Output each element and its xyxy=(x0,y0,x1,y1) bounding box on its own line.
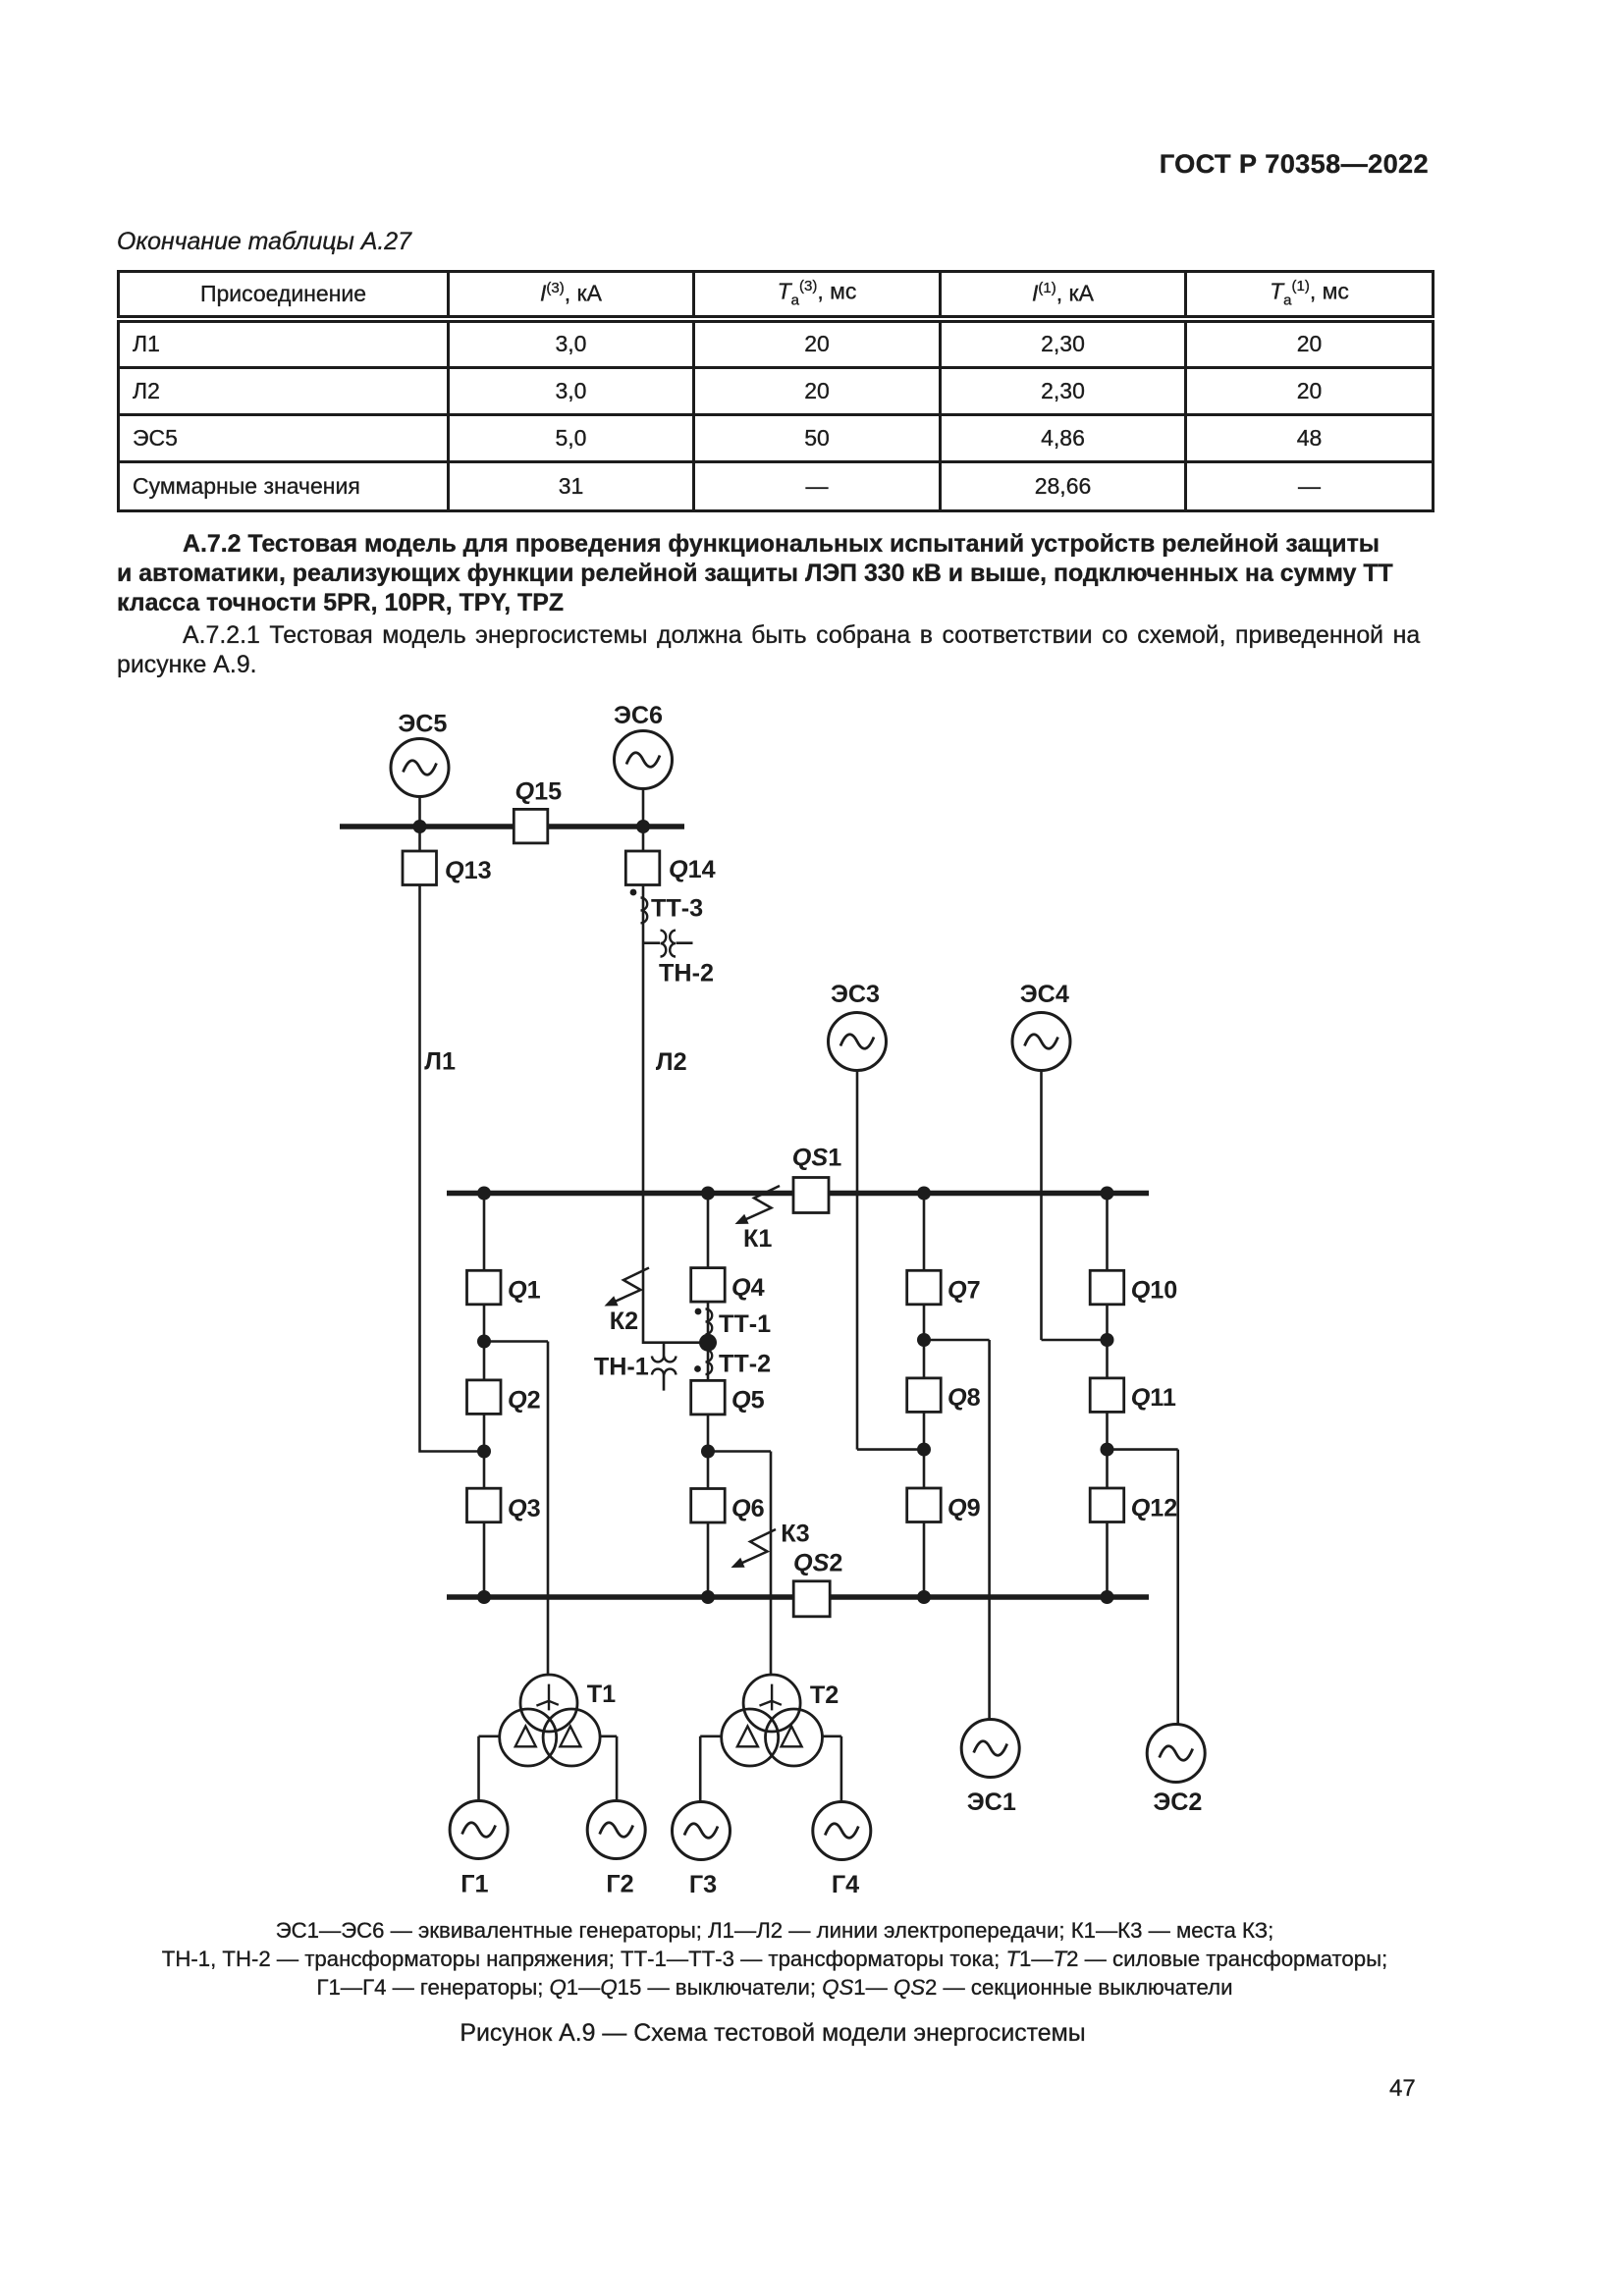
node Q8-Q9 xyxy=(917,1443,931,1457)
figure legend line 3 xyxy=(317,1975,1233,2001)
generator ЭС3 xyxy=(829,1013,887,1071)
wire ЭС5 stem xyxy=(418,797,421,852)
svg-text:ЭС4: ЭС4 xyxy=(1020,981,1069,1008)
breaker Q2 xyxy=(467,1380,502,1415)
node Q7-busbar xyxy=(917,1187,931,1201)
svg-text:Q3: Q3 xyxy=(508,1495,541,1522)
node Q6-lower busbar xyxy=(701,1590,715,1604)
node ЭС5-busbar xyxy=(413,820,427,833)
node Q1-busbar xyxy=(477,1187,491,1201)
svg-text:К3: К3 xyxy=(781,1521,809,1548)
figure legend line 1 xyxy=(276,1918,1274,1944)
middle busbar xyxy=(447,1191,1149,1197)
node Q11-Q12 xyxy=(1101,1443,1114,1457)
svg-text:Л2: Л2 xyxy=(656,1048,687,1076)
svg-text:ЭС6: ЭС6 xyxy=(614,702,663,729)
node Q3-lower busbar xyxy=(477,1590,491,1604)
generator ЭС4 xyxy=(1012,1013,1070,1071)
node Q1-Q2 xyxy=(477,1335,491,1349)
svg-text:QS1: QS1 xyxy=(792,1145,841,1172)
wire ЭС4 link xyxy=(1042,1070,1108,1340)
breaker Q12 xyxy=(1090,1488,1124,1522)
wire T1 to Г2 xyxy=(600,1736,618,1801)
svg-text:Т1: Т1 xyxy=(587,1681,616,1708)
voltage transformer ТН-1 windings xyxy=(652,1357,677,1375)
current transformer ТТ-2 coil xyxy=(706,1350,713,1374)
section breaker QS1 xyxy=(793,1178,829,1213)
table continuation title xyxy=(117,228,411,256)
svg-text:К1: К1 xyxy=(743,1225,772,1253)
wire line Л2 xyxy=(643,884,708,1343)
svg-text:ТТ-2: ТТ-2 xyxy=(719,1351,771,1378)
svg-text:Г1: Г1 xyxy=(460,1871,488,1898)
svg-text:Q7: Q7 xyxy=(947,1277,981,1305)
figure: power system test model schematic xyxy=(324,677,1218,1914)
breaker Q4 xyxy=(691,1268,726,1303)
figure caption xyxy=(460,2019,1085,2048)
svg-text:Q8: Q8 xyxy=(947,1384,981,1412)
paragraph A.7.2.1 xyxy=(183,621,1420,650)
node Q5-Q6 xyxy=(701,1445,715,1459)
page header xyxy=(1160,148,1429,180)
node Q7-Q8 xyxy=(917,1333,931,1347)
svg-text:Л1: Л1 xyxy=(424,1048,456,1076)
svg-text:ЭС2: ЭС2 xyxy=(1153,1789,1202,1816)
generator ЭС5 xyxy=(391,739,449,797)
transformer T2 windings xyxy=(722,1675,823,1766)
svg-text:Q11: Q11 xyxy=(1131,1384,1176,1412)
transformer T2 delta symbols xyxy=(737,1727,802,1747)
transformer T1 delta symbols xyxy=(515,1727,581,1747)
page number xyxy=(1389,2075,1416,2103)
wire T1 feed xyxy=(484,1342,548,1675)
junction node dots xyxy=(413,820,1114,1604)
svg-text:ТТ-3: ТТ-3 xyxy=(651,895,703,923)
svg-text:ЭС1: ЭС1 xyxy=(967,1789,1016,1816)
svg-text:QS2: QS2 xyxy=(793,1550,842,1577)
svg-text:ТТ-1: ТТ-1 xyxy=(719,1310,771,1338)
node Q4-busbar xyxy=(701,1187,715,1201)
breaker Q6 xyxy=(691,1489,726,1523)
table A.27 xyxy=(117,270,1435,512)
transformer T1 star symbol xyxy=(536,1684,558,1711)
svg-text:Q12: Q12 xyxy=(1131,1495,1178,1522)
wire T2 to Г4 xyxy=(822,1736,841,1801)
node Q10-Q11 xyxy=(1101,1333,1114,1347)
node Q2-Q3 xyxy=(477,1445,491,1459)
svg-text:Q14: Q14 xyxy=(669,856,716,883)
svg-text:Q15: Q15 xyxy=(515,778,563,806)
svg-text:ТН-1: ТН-1 xyxy=(594,1354,649,1381)
svg-text:К2: К2 xyxy=(610,1308,638,1335)
generator Г4 xyxy=(813,1802,871,1860)
svg-text:ЭС3: ЭС3 xyxy=(831,981,880,1008)
svg-text:Q9: Q9 xyxy=(947,1495,981,1522)
node Q12-lower busbar xyxy=(1101,1590,1114,1604)
breaker Q8 xyxy=(907,1378,942,1413)
svg-text:Г4: Г4 xyxy=(832,1871,859,1898)
svg-text:ТН-2: ТН-2 xyxy=(659,960,714,988)
current transformer ТТ-1 polarity dot xyxy=(695,1308,702,1315)
svg-text:Q13: Q13 xyxy=(445,857,492,884)
breaker Q15 xyxy=(514,809,548,843)
wire ЭС1 link xyxy=(924,1340,990,1719)
svg-text:Т2: Т2 xyxy=(810,1682,839,1709)
wire T1 to Г1 xyxy=(479,1736,501,1801)
svg-text:Q10: Q10 xyxy=(1131,1277,1178,1305)
fault marker К1 xyxy=(735,1186,781,1224)
transformer T1 windings xyxy=(500,1675,600,1766)
voltage transformer ТН-2 windings xyxy=(661,931,677,957)
svg-text:Q5: Q5 xyxy=(731,1387,765,1415)
transformer T2 star symbol xyxy=(760,1684,782,1711)
breaker Q14 xyxy=(625,851,660,885)
svg-text:Q4: Q4 xyxy=(731,1274,765,1302)
breaker Q5 xyxy=(691,1380,726,1415)
breaker Q10 xyxy=(1090,1270,1124,1305)
svg-text:Г3: Г3 xyxy=(689,1871,717,1898)
svg-text:Г2: Г2 xyxy=(606,1871,633,1898)
figure legend line 2 xyxy=(162,1947,1387,1972)
svg-text:ЭС5: ЭС5 xyxy=(398,711,447,738)
wire line Л1 xyxy=(420,884,485,1452)
breaker Q11 xyxy=(1090,1378,1124,1413)
breaker Q1 xyxy=(467,1270,502,1305)
wire T2 feed xyxy=(708,1452,771,1675)
breaker Q13 xyxy=(403,851,437,885)
breaker Q3 xyxy=(467,1488,502,1522)
generator Г3 xyxy=(673,1802,731,1860)
wire T2 to Г3 xyxy=(700,1736,722,1801)
wire ЭС2 link xyxy=(1108,1450,1178,1725)
wire Q1 column xyxy=(483,1194,486,1598)
generator ЭС6 xyxy=(615,731,673,789)
wire Q7 column xyxy=(923,1194,926,1598)
wire ТН-1 stubs xyxy=(663,1343,666,1391)
node Q9-lower busbar xyxy=(917,1590,931,1604)
current transformer ТТ-2 polarity dot xyxy=(694,1365,701,1372)
current transformer ТТ-3 polarity dot xyxy=(630,889,637,896)
generator ЭС2 xyxy=(1147,1725,1205,1783)
svg-text:Q6: Q6 xyxy=(731,1495,765,1522)
current transformer ТТ-1 coil xyxy=(706,1309,713,1335)
wire ЭС3 link xyxy=(857,1070,924,1449)
generator ЭС1 xyxy=(961,1720,1019,1778)
top busbar xyxy=(340,824,684,829)
wire ЭС6 stem xyxy=(642,789,645,852)
breaker Q9 xyxy=(907,1488,942,1522)
wire Q4 column xyxy=(707,1194,710,1598)
breaker Q7 xyxy=(907,1270,942,1305)
wire Q10 column xyxy=(1106,1194,1109,1598)
section breaker QS2 xyxy=(793,1581,830,1617)
bottom busbar xyxy=(447,1594,1149,1600)
current transformer ТТ-3 coil xyxy=(641,898,648,924)
fault marker К3 xyxy=(731,1529,777,1568)
generator Г1 xyxy=(450,1801,508,1859)
wire ТН-2 tap xyxy=(643,941,693,944)
svg-text:Q1: Q1 xyxy=(508,1277,541,1305)
svg-text:Q2: Q2 xyxy=(508,1387,541,1415)
section heading A.7.2 xyxy=(183,530,1380,559)
node ТТ-1-ТТ-2 xyxy=(699,1334,717,1352)
fault marker К2 xyxy=(605,1268,650,1307)
node ЭС6-busbar xyxy=(636,820,650,833)
node Q10-busbar xyxy=(1101,1187,1114,1201)
generator Г2 xyxy=(587,1801,645,1859)
